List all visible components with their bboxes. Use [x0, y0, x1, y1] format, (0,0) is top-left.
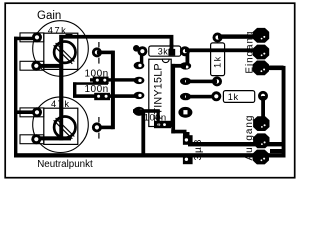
- svg-text:100n: 100n: [85, 69, 109, 80]
- wire: R1 left pad down to IC pin1: [140, 51, 143, 63]
- pot P2 outer circle: [33, 97, 89, 153]
- via V2: [133, 45, 140, 52]
- wire: x=61 vertical overlay over rotors: [59, 39, 63, 141]
- wire: R2 top pad to Eingang pad1: [218, 34, 259, 38]
- wire: bottom bus: [14, 153, 286, 157]
- wire: pot2 wiper right: [97, 126, 114, 130]
- capacitor C1 100n bar to IC pin: [90, 78, 135, 81]
- pot P1 outer circle: [33, 21, 89, 77]
- wire: left rail down: [14, 37, 17, 156]
- svg-text:100n: 100n: [85, 84, 109, 95]
- wire: IC pin4 bar left and down stubs: [133, 109, 160, 113]
- pot P1 tab box pad B: [20, 61, 44, 70]
- IC U1 right pads: [178, 62, 192, 118]
- pot P2 wiper pad W: [92, 122, 102, 132]
- wire: pot1 wiper right: [97, 51, 114, 55]
- connector Ausgang pad 1: [253, 116, 269, 131]
- svg-text:47k: 47k: [51, 99, 71, 109]
- wire: R1 right pad to Eingang pad2 (crosses R2 body): [185, 48, 258, 52]
- wire: corner right to C4: [171, 130, 186, 134]
- pot P1 pad A: [32, 32, 42, 42]
- pot P1 pad B: [31, 61, 41, 71]
- wire: stub from IC right pad1 up to R1 trace: [186, 51, 190, 63]
- wire: vertical trace x=61: [59, 35, 63, 140]
- svg-text:1k: 1k: [213, 55, 223, 68]
- pot P2 wiper tab lines: [98, 117, 99, 122]
- svg-text:Gain: Gain: [37, 10, 61, 22]
- svg-text:ATTINY15LP: ATTINY15LP: [153, 63, 165, 128]
- resistor R3 right pad: [258, 91, 268, 101]
- svg-text:3µ3: 3µ3: [193, 138, 204, 161]
- wire: R3 right pad down to Ausgang pad1: [261, 96, 265, 124]
- wire: IC right pad1 left to vertical: [172, 64, 186, 68]
- wire: vertical x=112.5: [111, 51, 115, 130]
- pot P1 wiper pad W: [92, 47, 102, 57]
- svg-text:Ausgang: Ausgang: [244, 115, 255, 161]
- capacitor C4 3u3 top pad: [183, 135, 193, 145]
- wire: stub at bottom of x=61 trace: [40, 136, 71, 140]
- pot P1 wiper tab lines: [98, 42, 99, 47]
- pot P1 rotor circle with slot: [54, 42, 75, 63]
- resistor R3 1k horizontal: body: [223, 91, 254, 103]
- resistor R1 left pad: [137, 46, 147, 56]
- capacitor C3 100n (small horizontal): [154, 123, 174, 126]
- border frame: [5, 3, 295, 178]
- svg-text:1k: 1k: [228, 92, 239, 102]
- pot P2 pad B: [31, 134, 41, 144]
- pot P2 tab box pad A: [20, 108, 44, 117]
- pot P2 tab box pad B: [20, 135, 44, 144]
- pot P1 tab box pad A: [20, 33, 44, 42]
- wire: right edge into bottom bus: [270, 149, 286, 153]
- resistor R1 right pad: [180, 46, 190, 56]
- wire: Eingang pad3 to right edge: [261, 66, 284, 71]
- resistor R1 3k3 body: [149, 46, 181, 56]
- pot P1 body outline: [44, 33, 78, 69]
- resistor R2 1k vertical: body: [211, 43, 225, 76]
- wire: pot1 pad B to x=61 trace: [38, 64, 62, 68]
- resistor R2 bottom pad: [212, 76, 222, 86]
- IC U1 body outline: [149, 59, 171, 126]
- svg-text:Eingang: Eingang: [244, 31, 255, 74]
- wire: lower bar under C1: [73, 82, 108, 85]
- wire: IC right pad2 to R2 bottom pad: [186, 80, 217, 84]
- pot P2 body outline: [44, 108, 78, 144]
- wire: top bus with corner down to via V1: [59, 35, 173, 52]
- capacitor C4 3u3 bottom pad: [183, 155, 193, 165]
- svg-text:Neutralpunkt: Neutralpunkt: [37, 159, 93, 170]
- capacitor C2 100n bar: [73, 94, 135, 98]
- connector Ausgang pad 3: [253, 150, 269, 165]
- wire: left rail to pot2 pad A: [16, 110, 37, 114]
- pot P2 pad A: [32, 107, 42, 117]
- wire: vertical x=74.5: [73, 82, 76, 97]
- connector Eingang pad 1: [253, 28, 269, 43]
- pot P2 rotor circle with slot: [54, 117, 75, 138]
- resistor R2 top pad: [213, 33, 223, 43]
- wire: vertical x=173 down: [171, 64, 175, 133]
- connector Eingang pad 2: [253, 45, 269, 60]
- svg-text:47k: 47k: [48, 26, 68, 36]
- wire: C4 top pad to Ausgang pad2: [188, 142, 285, 146]
- connector Eingang pad 3: [253, 61, 269, 76]
- connector Ausgang pad 2: [253, 133, 269, 148]
- resistor R3 left pad: [211, 91, 221, 101]
- IC U1 notch: [162, 59, 169, 62]
- wire: pot1 pad A to left rail: [14, 37, 37, 41]
- wire: IC right pad3 to R3 left pad: [186, 95, 216, 99]
- wire: pot2 pad B bar overlay: [40, 136, 71, 140]
- wire: right edge trace down: [282, 66, 286, 158]
- IC U1 left pads: [133, 62, 144, 116]
- via V1 with trace from bus: [170, 44, 174, 53]
- via bump on bus: [66, 34, 73, 37]
